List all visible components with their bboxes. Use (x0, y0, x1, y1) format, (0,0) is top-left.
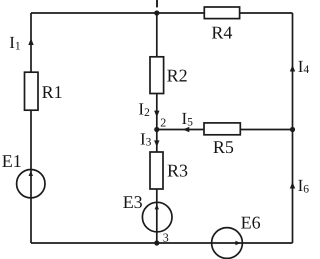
wire middle horizontal (node2 to right branch) (157, 129, 293, 131)
svg-text:I5: I5 (182, 109, 194, 128)
svg-text:I4: I4 (298, 57, 310, 76)
EMF arrow of E1 (29, 171, 33, 176)
resistor R5 (204, 123, 240, 135)
svg-text:E3: E3 (123, 192, 143, 212)
svg-text:R4: R4 (211, 22, 232, 42)
wire top-right (node1 through R4 to right corner) (157, 12, 293, 14)
EMF arrow of E3 (155, 204, 159, 209)
svg-text:R5: R5 (213, 137, 234, 157)
resistor R4 (204, 7, 239, 19)
node 3 junction dot (154, 240, 159, 245)
junction dot right (R5 to right branch) (290, 127, 295, 132)
current arrow I4 (290, 65, 295, 72)
EMF arrow of E6 (235, 241, 240, 245)
wire middle vertical (node1-node2-node3) (156, 13, 158, 243)
svg-text:I2: I2 (138, 100, 150, 119)
source E3 circle (142, 202, 172, 232)
svg-text:3: 3 (163, 231, 169, 245)
svg-text:I6: I6 (298, 176, 310, 195)
wire top-left (node1 to left corner) (31, 12, 157, 14)
resistor R3 (150, 152, 163, 189)
current arrow I6 (290, 182, 295, 189)
resistor R1 (25, 72, 39, 110)
svg-text:R2: R2 (167, 65, 188, 85)
current arrow I5 (183, 127, 190, 132)
node 1 junction dot (154, 10, 159, 15)
svg-text:R1: R1 (42, 82, 63, 102)
source E1 circle (17, 170, 45, 198)
wire right branch (292, 13, 294, 243)
node 2 junction dot (154, 127, 159, 132)
svg-text:E6: E6 (241, 213, 261, 233)
current arrow I3 (154, 140, 159, 147)
svg-text:2: 2 (160, 115, 166, 129)
svg-text:I1: I1 (9, 33, 21, 52)
wire bottom (31, 242, 293, 244)
current arrow I2 (154, 111, 159, 118)
resistor R2 (150, 57, 164, 94)
svg-text:R3: R3 (167, 161, 188, 181)
svg-text:I3: I3 (140, 130, 152, 149)
wire left branch (30, 13, 32, 243)
node 1 digit (clipped "1" above node 1) (156, 0, 158, 7)
source E6 circle (212, 228, 243, 259)
current arrow I1 (28, 38, 33, 45)
svg-text:E1: E1 (2, 151, 22, 171)
